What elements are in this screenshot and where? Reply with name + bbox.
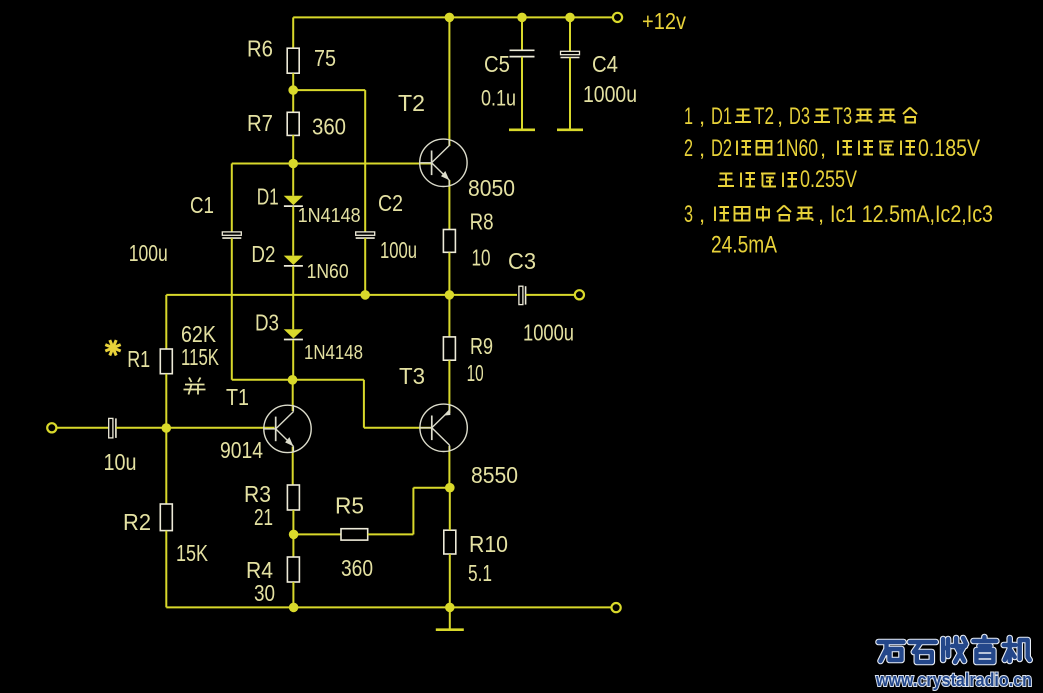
svg-text:R8: R8 xyxy=(470,209,494,235)
capacitor C5 (0.1u) xyxy=(510,50,535,56)
svg-text:24.5mA: 24.5mA xyxy=(711,232,777,259)
wire bias line to T2 base xyxy=(232,163,432,165)
wire C2 upper lead xyxy=(364,90,366,232)
svg-text:,: , xyxy=(699,202,705,227)
svg-text:www.crystalradio.cn: www.crystalradio.cn xyxy=(875,670,1032,690)
svg-text:8550: 8550 xyxy=(471,462,518,488)
wire C4 upper lead xyxy=(569,17,571,51)
svg-text:D2: D2 xyxy=(711,135,732,162)
annotation char 降 xyxy=(901,141,915,156)
svg-text:R9: R9 xyxy=(470,333,493,359)
svg-text:R5: R5 xyxy=(335,493,364,519)
junction C2/output node xyxy=(360,290,370,300)
annotation char 工 xyxy=(718,174,734,187)
wire C-in to T1 base xyxy=(116,427,275,429)
svg-text:C4: C4 xyxy=(592,51,618,77)
annotation char 作 xyxy=(741,173,755,188)
wire R5 right lead xyxy=(368,533,414,535)
junction rail/T2 node xyxy=(445,13,455,23)
svg-text:C2: C2 xyxy=(378,190,403,216)
svg-text:,: , xyxy=(699,104,705,129)
svg-text:115K: 115K xyxy=(181,344,219,370)
wire C2 lower lead xyxy=(364,238,366,295)
svg-text:3: 3 xyxy=(684,201,693,228)
watermark char 机 xyxy=(1004,638,1030,661)
capacitor C3 (1000u) output coupling xyxy=(519,286,526,304)
svg-text:10u: 10u xyxy=(104,449,137,475)
svg-text:1N60: 1N60 xyxy=(307,261,349,283)
ground C4 ground xyxy=(557,129,583,132)
capacitor C1 (100u) xyxy=(222,232,241,238)
annotation char 与 xyxy=(814,110,830,123)
terminal audio output xyxy=(575,290,584,299)
svg-text:,: , xyxy=(820,136,826,161)
resistor R7 xyxy=(287,112,299,135)
resistor R5 xyxy=(341,529,368,540)
junction input/R1/R2 node xyxy=(162,423,172,433)
wire C5 upper lead xyxy=(521,17,523,50)
svg-text:+12v: +12v xyxy=(642,8,686,34)
svg-text:1N60: 1N60 xyxy=(776,135,818,162)
svg-text:T2: T2 xyxy=(754,103,774,130)
annotation char 热 xyxy=(857,110,872,124)
svg-text:C1: C1 xyxy=(190,192,214,218)
svg-text:D3: D3 xyxy=(255,310,279,336)
svg-text:C3: C3 xyxy=(508,248,536,274)
resistor R9 xyxy=(443,337,455,360)
capacitor C2 (100u) xyxy=(356,232,375,238)
svg-text:T3: T3 xyxy=(399,363,425,389)
svg-text:D1: D1 xyxy=(711,103,732,130)
annotation char 试 xyxy=(859,141,873,156)
wire D2-D3 link xyxy=(292,266,294,329)
wire to C2 top horizontal xyxy=(293,89,365,91)
resistor R1 xyxy=(160,349,172,374)
junction rail/C4 node xyxy=(565,13,575,23)
svg-text:,: , xyxy=(818,202,824,227)
svg-text:D3: D3 xyxy=(789,103,810,130)
wire D1-D2 link xyxy=(292,206,294,255)
annotation char 测 xyxy=(838,141,852,156)
transistor T2 (NPN 8050) xyxy=(420,139,467,186)
wire T2 collector lead from rail xyxy=(448,17,450,146)
svg-text:1000u: 1000u xyxy=(523,320,574,346)
junction T3/R5/R10 node xyxy=(445,483,455,493)
terminal input xyxy=(47,423,56,432)
svg-text:30: 30 xyxy=(254,580,275,606)
wire T3 collector lead down xyxy=(448,446,450,488)
wire R5 riser xyxy=(412,488,414,535)
svg-text:8050: 8050 xyxy=(468,175,515,201)
wire C1 upper lead xyxy=(231,164,233,232)
terminal +12v supply xyxy=(613,13,622,22)
svg-text:100u: 100u xyxy=(380,237,417,263)
wire T2 emitter to R8 xyxy=(448,180,450,229)
watermark char 音 xyxy=(973,637,996,662)
svg-text:2: 2 xyxy=(684,135,693,162)
junction R4/rail node xyxy=(289,603,299,613)
wire R2 to bottom rail xyxy=(165,531,167,608)
wire R6-R7 link xyxy=(292,73,294,112)
svg-text:0.255V: 0.255V xyxy=(800,166,857,193)
resistor R10 xyxy=(444,530,456,554)
svg-text:1000u: 1000u xyxy=(583,81,637,107)
junction rail/C5 node xyxy=(517,13,527,23)
svg-text:15K: 15K xyxy=(176,540,209,566)
svg-text:360: 360 xyxy=(341,555,373,581)
svg-text:T2: T2 xyxy=(398,90,425,116)
wire C5 lower lead xyxy=(521,57,523,129)
annotation char 图 xyxy=(735,207,750,221)
wire collector node to C corner xyxy=(293,379,364,381)
svg-text:360: 360 xyxy=(312,114,346,140)
wire R7 to D1 xyxy=(292,135,294,196)
wire R9 to T3 emitter xyxy=(448,360,450,413)
svg-text:1N4148: 1N4148 xyxy=(298,205,361,227)
wire to R1 top xyxy=(165,295,167,349)
svg-text:T1: T1 xyxy=(226,384,249,410)
junction ground/rail node xyxy=(445,603,455,613)
svg-text:5.1: 5.1 xyxy=(468,560,492,586)
annotation char 选 xyxy=(737,141,751,156)
annotation char 压 xyxy=(761,174,776,187)
diode D3 xyxy=(284,329,303,339)
ground main ground xyxy=(436,628,464,631)
svg-text:R2: R2 xyxy=(123,509,151,535)
svg-text:1N4148: 1N4148 xyxy=(304,342,363,364)
svg-text:R1: R1 xyxy=(127,346,150,372)
svg-text:,: , xyxy=(777,104,783,129)
label 并 (parallel) xyxy=(184,378,206,395)
wire R6 top lead xyxy=(292,17,294,48)
junction R3/R4/R5 node xyxy=(289,530,299,540)
svg-text:0.1u: 0.1u xyxy=(481,86,516,111)
wire top +12V rail horizontal xyxy=(293,16,617,18)
diode D2 xyxy=(284,256,303,266)
junction R8/R9/output node xyxy=(445,290,455,300)
wire C1 lower lead xyxy=(231,238,233,380)
resistor R3 xyxy=(287,485,299,510)
watermark char 收 xyxy=(943,638,966,662)
terminal bottom terminal xyxy=(612,603,621,612)
wire C4 lower lead xyxy=(569,58,571,130)
svg-text:10: 10 xyxy=(472,245,491,271)
annotation char 降 xyxy=(783,173,797,188)
annotation char 参 xyxy=(777,206,791,221)
svg-text:0.185V: 0.185V xyxy=(918,135,980,162)
annotation char 中 xyxy=(757,206,769,222)
wire corner down to T3 base line xyxy=(363,380,365,428)
wire R1 to R2 xyxy=(165,374,167,504)
wire ground stub xyxy=(449,607,451,628)
wire R10 to rail xyxy=(449,554,451,607)
svg-text:R10: R10 xyxy=(469,531,508,557)
resistor R6 xyxy=(287,48,299,73)
annotation char 数 xyxy=(798,208,813,222)
transistor T3 (PNP 8550) xyxy=(420,404,467,451)
wire to R5 left xyxy=(294,533,341,535)
wire R3-R4 link xyxy=(292,510,294,557)
svg-text:C5: C5 xyxy=(484,51,510,77)
wire R8 to output node xyxy=(448,252,450,295)
wire input to C-in xyxy=(56,427,108,429)
annotation char 按 xyxy=(715,207,729,222)
node marker star (R1 note) xyxy=(105,340,120,355)
resistor R2 xyxy=(160,504,172,531)
wire T1 collector lead xyxy=(292,380,294,411)
wire bottom rail horizontal xyxy=(166,606,611,608)
junction T1 collector node xyxy=(288,375,298,385)
capacitor C-in (10u) input coupling xyxy=(109,418,116,438)
junction R7/D1/bias node xyxy=(288,159,298,169)
svg-text:R6: R6 xyxy=(247,36,273,62)
svg-text:D2: D2 xyxy=(251,241,275,267)
junction R6/R7/C2 node xyxy=(288,85,298,95)
svg-text:Ic1 12.5mA,Ic2,Ic3: Ic1 12.5mA,Ic2,Ic3 xyxy=(830,201,993,228)
diode D1 xyxy=(284,196,303,206)
wire to T3 base xyxy=(364,427,432,429)
svg-text:1: 1 xyxy=(684,103,693,130)
ground C5 ground xyxy=(509,129,535,132)
watermark char 矿 xyxy=(879,642,904,661)
capacitor C4 (1000u) xyxy=(561,51,580,57)
svg-text:T3: T3 xyxy=(833,103,852,130)
svg-text:75: 75 xyxy=(314,45,336,71)
svg-text:R7: R7 xyxy=(247,110,273,136)
wire C3 to output terminal xyxy=(526,294,575,296)
wire R4 to rail xyxy=(292,582,294,607)
resistor R8 xyxy=(443,230,455,253)
svg-text:D1: D1 xyxy=(257,184,279,210)
watermark char 石 xyxy=(910,642,936,662)
annotation char 用 xyxy=(757,141,772,155)
svg-text:21: 21 xyxy=(254,504,273,530)
wire D3 to T1 collector node xyxy=(292,340,294,380)
annotation char 与 xyxy=(735,110,751,123)
wire output node horizontal xyxy=(166,294,517,296)
annotation char 合 xyxy=(903,108,917,123)
wire T1 emitter to R3 xyxy=(292,447,294,485)
wire node to R10 xyxy=(449,488,451,531)
svg-text:,: , xyxy=(699,136,705,161)
resistor R4 xyxy=(287,557,299,582)
wire to T3 collector node xyxy=(413,487,449,489)
transistor T1 (NPN 9014) xyxy=(264,405,311,452)
svg-text:100u: 100u xyxy=(129,240,168,266)
svg-text:9014: 9014 xyxy=(220,437,263,463)
wire C1 to collector node xyxy=(232,379,293,381)
annotation char 耦 xyxy=(880,110,895,124)
wire output node to R9 xyxy=(448,295,450,337)
annotation char 压 xyxy=(879,142,894,155)
svg-text:10: 10 xyxy=(467,360,484,386)
